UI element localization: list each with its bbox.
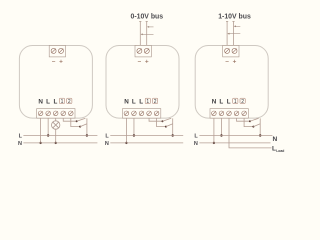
switch S3 contact dot [162,120,164,122]
switch S6 blade [253,124,260,127]
switch S4 wire from terminal 2 [157,118,166,127]
bus wire minus (left) [226,22,228,46]
screw TB3-2 [232,48,237,53]
svg-text:N: N [18,141,22,147]
switch S3 wire from terminal 1 [149,118,162,121]
junction dot on L bus [133,134,135,136]
terminal block TB2 [135,46,151,57]
screw TB1-1 [51,48,56,53]
wire L screw to L bus [47,118,49,135]
bus wire end ticks [139,21,148,23]
svg-text:L: L [132,99,136,106]
junction dot on N bus [39,142,41,144]
bus wire minus (left) [139,22,141,46]
polarity labels - + [138,60,149,63]
terminal strip TS1 [37,109,75,119]
terminal block TB1 (top, - +) [49,46,65,57]
svg-text:1: 1 [234,99,237,105]
wire L-out screw to load line [229,118,272,148]
wire N screw to N bus [125,118,127,143]
wire L screw to L bus [133,118,135,135]
N bus line 1 [23,142,97,144]
arrow on minus wire [141,33,154,35]
svg-text:N: N [194,141,198,147]
svg-text:L: L [46,99,50,106]
strip screws x5 [212,111,247,116]
wire N screw to N bus [40,118,42,143]
lamp E1 [52,121,60,129]
arrow on plus wire [147,26,154,28]
strip screws x5 [38,111,73,116]
N bus line 3 [199,142,270,144]
arrow on plus wire [234,25,241,27]
switch S4 blade [166,124,173,127]
N bus line 2 [110,142,183,144]
arrow on minus wire [227,33,240,35]
switch S1 wire from terminal 1 [63,118,76,121]
switch S4 contact dot [165,126,167,128]
svg-text:L: L [139,99,143,106]
wire L screw to L bus [220,118,222,135]
screw TB2-2 [144,48,149,53]
polarity labels - + [52,60,63,63]
svg-text:1-10V bus: 1-10V bus [218,14,251,21]
wire lamp to N bus [55,129,57,143]
bus wire plus (right) [146,22,148,46]
bus wire plus (right) [233,22,235,46]
svg-text:N: N [273,136,278,143]
switch S6 contact dot [252,126,254,128]
switch common wire to L bus [259,118,261,135]
screw TB2-1 [137,48,142,53]
switch common wire to L bus [172,118,174,135]
svg-text:L: L [53,99,57,106]
svg-text:L: L [227,99,231,106]
module U2 body [106,46,179,119]
boxed label 2 [67,98,72,103]
terminal strip TS2 [123,109,161,119]
switch S5 blade [250,118,259,121]
junction dot on N bus [125,142,127,144]
boxed label 1 [59,98,64,103]
switch S1 blade [77,118,86,121]
L bus line 2 [110,135,183,137]
svg-text:Load: Load [276,149,284,153]
junction dot switch-L [86,134,88,136]
screw TB1-2 [59,48,64,53]
module U3 body [195,46,268,119]
junction dot on L bus [47,134,49,136]
svg-text:N: N [212,99,217,106]
svg-text:2: 2 [154,99,157,105]
bus wire end ticks [226,21,235,23]
junction dot on L bus [220,134,222,136]
svg-text:1: 1 [146,99,149,105]
terminal block TB3 [223,46,239,57]
switch common wire to L bus [86,118,88,135]
svg-text:L: L [219,99,223,106]
boxed label 2 [240,98,245,103]
svg-text:N: N [38,99,43,106]
svg-text:2: 2 [241,99,244,105]
junction dot switch-L [259,134,261,136]
wire N screw to N bus [213,118,215,143]
switch S2 blade [80,124,87,127]
svg-text:N: N [105,141,109,147]
switch S2 wire from terminal 2 [71,118,80,127]
module U1 body [19,46,92,119]
svg-text:2: 2 [68,99,71,105]
switch S1 contact dot [76,120,78,122]
boxed label 1 [233,98,238,103]
junction dot lamp-N [55,142,57,144]
switch S3 blade [163,118,172,121]
svg-text:1: 1 [61,99,64,105]
boxed label 1 [145,98,150,103]
svg-text:N: N [124,99,129,106]
switch S2 contact dot [79,126,81,128]
svg-text:0-10V bus: 0-10V bus [131,14,164,21]
terminal strip TS3 [210,109,248,119]
strip screws x5 [124,111,159,116]
L bus line 1 [23,135,97,137]
switch S5 contact dot [249,120,251,122]
boxed label 2 [153,98,158,103]
polarity labels - + [226,60,237,63]
L bus line 3 [199,135,272,137]
wire L-out to lamp [55,118,57,121]
junction dot on N bus [213,142,215,144]
screw TB3-1 [225,48,230,53]
switch S6 wire from terminal 2 [244,118,253,127]
switch S5 wire from terminal 1 [237,118,250,121]
junction dot switch-L [172,134,174,136]
